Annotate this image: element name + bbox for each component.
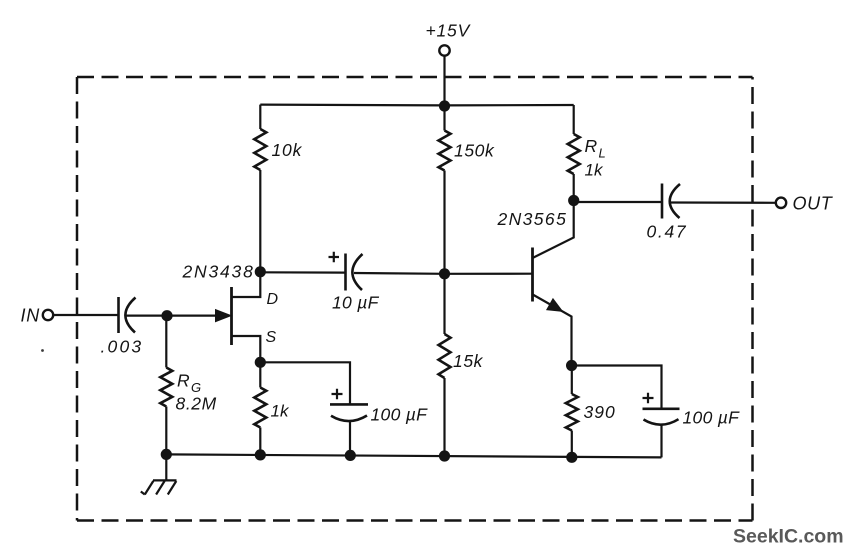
svg-text:390: 390 (584, 402, 616, 422)
capacitor 100 uF emitter bypass (643, 393, 741, 428)
wire: bypass cap to ground rail (349, 422, 351, 456)
capacitor 0.47 (647, 184, 688, 242)
svg-text:100 µF: 100 µF (683, 408, 741, 428)
transistor Q2 2N3565 (533, 201, 574, 366)
node: drain node (255, 266, 266, 277)
transistor Q1 2N3438 (232, 272, 261, 363)
resistor 15k (439, 334, 484, 378)
wire: 10k bottom to drain node (259, 170, 261, 272)
node: ground rail junction at bypass cap (345, 450, 356, 461)
resistor 390 (566, 394, 616, 431)
node: collector output node (568, 195, 579, 206)
svg-text:150k: 150k (454, 141, 495, 161)
resistor 150k (439, 131, 495, 171)
svg-text:0.47: 0.47 (647, 222, 688, 242)
svg-text:15k: 15k (453, 351, 484, 371)
svg-text:R: R (585, 136, 598, 156)
svg-text:2N3565: 2N3565 (497, 209, 568, 229)
svg-text:100 µF: 100 µF (371, 405, 429, 425)
wire: drain node to 10uF cap (260, 271, 345, 274)
node: emitter node (566, 360, 577, 371)
wire: rail to RL top (573, 105, 575, 134)
svg-text:10 µF: 10 µF (332, 293, 380, 313)
wire: rail to 10k top (259, 105, 261, 129)
svg-text:1k: 1k (271, 402, 290, 421)
wire: rail to ground symbol (165, 454, 167, 480)
wire: gate wire with arrow (167, 310, 231, 322)
node: gate node (161, 310, 172, 321)
dashed enclosure border (77, 77, 753, 521)
wire: rail to 150k top (443, 106, 445, 131)
wire: 15k bottom to ground rail (443, 378, 445, 456)
svg-text:D: D (267, 291, 279, 308)
node: source node (255, 357, 266, 368)
capacitor 10 uF (329, 252, 380, 313)
wire: 1k bottom to ground rail (259, 428, 261, 456)
wire: source node to bypass cap (260, 362, 350, 404)
wire: 150k bottom to base node (443, 171, 445, 275)
wire: emitter node to emitter bypass cap (572, 366, 662, 409)
svg-text:R: R (177, 371, 190, 391)
resistor RG 8.2M (160, 368, 217, 414)
IN terminal (21, 306, 54, 326)
wire: top supply rail (260, 103, 573, 106)
svg-text:10k: 10k (272, 140, 303, 160)
resistor RL 1k (568, 134, 606, 180)
node: rail junction (439, 100, 450, 111)
capacitor .003 (101, 297, 144, 357)
wire: gate node down to RG (165, 316, 167, 368)
svg-text:1k: 1k (585, 161, 604, 180)
svg-text:8.2M: 8.2M (176, 394, 217, 414)
speck artifact (41, 349, 44, 352)
resistor 1k (254, 388, 290, 428)
wire: 390 bottom to ground rail (571, 431, 573, 458)
wire: base node to Q2 base (445, 273, 533, 275)
wire: input cap to gate node (127, 315, 168, 317)
resistor 10k (254, 129, 302, 170)
wire: IN to input cap (54, 314, 119, 316)
wire: emitter node to 390 (571, 366, 573, 395)
OUT terminal (776, 194, 834, 214)
svg-text:SeekIC.com: SeekIC.com (733, 526, 844, 548)
wire: +15V down to top rail (443, 56, 445, 106)
wire: base node to 15k top (443, 274, 445, 334)
node: ground rail junction at 390 (566, 452, 577, 463)
node: ground rail junction at RG (161, 449, 172, 460)
node: ground rail junction at 15k (439, 450, 450, 461)
svg-text:OUT: OUT (793, 194, 834, 214)
svg-text:+15V: +15V (426, 21, 472, 41)
wire: output cap to OUT terminal (670, 201, 776, 204)
capacitor 100 uF source bypass (330, 389, 428, 425)
wire: 10uF cap to base node (354, 272, 445, 275)
wire: source node to 1k (259, 363, 261, 388)
wire: RL bottom to collector node (573, 174, 575, 201)
wire: bottom ground rail (166, 454, 661, 457)
ground (141, 480, 177, 494)
svg-text:2N3438: 2N3438 (182, 262, 255, 282)
wire: collector node to output cap (574, 201, 662, 203)
wire: emitter bypass cap to ground rail (660, 425, 662, 457)
svg-text:L: L (599, 146, 606, 161)
svg-text:IN: IN (21, 306, 41, 326)
wire: RG bottom to ground rail (165, 407, 167, 455)
+15V supply terminal (426, 21, 472, 56)
svg-text:.003: .003 (101, 337, 144, 357)
node: base node (439, 268, 450, 279)
svg-text:S: S (266, 329, 277, 346)
node: ground rail junction at 1k (255, 449, 266, 460)
